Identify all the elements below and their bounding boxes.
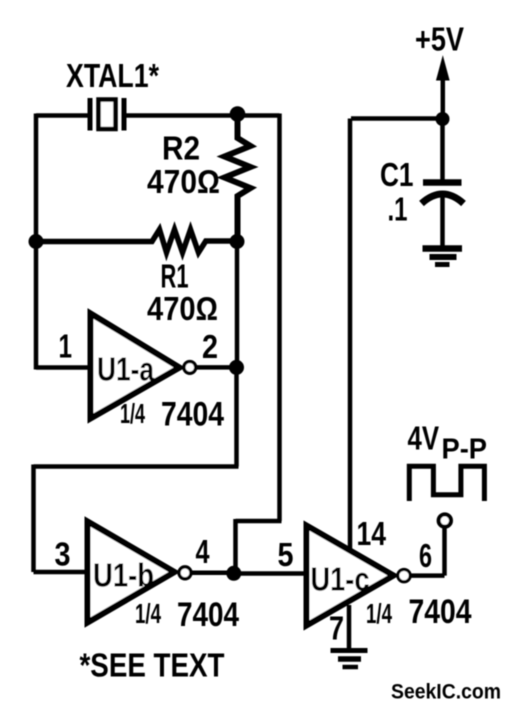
svg-text:5: 5 <box>278 536 294 573</box>
wire left vertical <box>34 114 39 370</box>
square wave symbol <box>409 466 484 501</box>
svg-text:470Ω: 470Ω <box>147 163 220 200</box>
wire jog vertical down to node <box>233 519 238 574</box>
svg-text:*SEE TEXT: *SEE TEXT <box>80 647 225 684</box>
capacitor C1 <box>422 119 464 248</box>
resistor R2 <box>225 114 251 242</box>
wire U1-c output <box>411 573 445 578</box>
svg-text:1/4: 1/4 <box>135 598 161 629</box>
inverter U1-b <box>88 522 192 623</box>
svg-text:SeekIC.com: SeekIC.com <box>391 681 501 704</box>
wire pin 7 vertical <box>347 605 352 649</box>
ground C1 <box>423 249 463 265</box>
wire pin2 vertical down <box>234 368 239 467</box>
inverter U1-a <box>91 314 196 419</box>
wire lower left vertical <box>31 465 36 573</box>
node junction left R1 <box>29 234 44 249</box>
svg-text:7: 7 <box>329 610 344 647</box>
wire node to pin 5 <box>234 571 308 576</box>
svg-text:P-P: P-P <box>442 434 488 466</box>
svg-text:1/4: 1/4 <box>366 598 392 629</box>
wire horizontal to left <box>34 464 239 469</box>
+5V supply arrow <box>437 57 449 119</box>
svg-text:+5V: +5V <box>415 21 464 58</box>
svg-text:470Ω: 470Ω <box>147 290 218 327</box>
wire +5V horizontal <box>351 116 443 121</box>
node junction pin 2 <box>229 360 244 375</box>
wire crystal right lead <box>124 113 238 118</box>
crystal XTAL1 <box>90 98 124 131</box>
svg-text:.1: .1 <box>388 191 408 228</box>
svg-text:7404: 7404 <box>161 396 224 434</box>
output terminal circle <box>439 514 451 526</box>
svg-text:4: 4 <box>196 533 210 570</box>
svg-text:XTAL1*: XTAL1* <box>66 57 159 94</box>
ground pin 7 <box>331 651 368 668</box>
svg-text:R1: R1 <box>161 258 189 295</box>
svg-text:14: 14 <box>357 515 387 552</box>
svg-text:U1-b: U1-b <box>93 557 154 594</box>
wire top junction to right corner <box>238 113 280 118</box>
node junction +5V <box>436 112 450 126</box>
svg-text:6: 6 <box>419 537 432 574</box>
svg-text:2: 2 <box>202 328 218 365</box>
svg-text:1: 1 <box>59 328 73 365</box>
svg-text:7404: 7404 <box>177 596 239 634</box>
svg-text:7404: 7404 <box>409 593 472 631</box>
wire U1-a output <box>196 365 237 370</box>
node junction pin 4 <box>226 566 241 581</box>
node junction top <box>230 106 246 122</box>
wire top-left horizontal to crystal <box>36 113 90 118</box>
wire output vertical to terminal <box>442 528 447 576</box>
svg-text:C1: C1 <box>380 156 414 193</box>
svg-text:1/4: 1/4 <box>120 398 145 429</box>
svg-text:U1-a: U1-a <box>97 351 155 388</box>
svg-text:U1-c: U1-c <box>311 561 370 598</box>
svg-text:4V: 4V <box>408 420 440 457</box>
node junction right R1 <box>230 234 245 249</box>
wire vertical R1 junction to pin2 junction <box>235 242 240 368</box>
wire U1-b output <box>192 571 234 576</box>
wire U1-b input <box>34 570 88 575</box>
wire jog horizontal <box>236 519 282 524</box>
wire pin 14 vertical <box>348 119 353 551</box>
inverter U1-c <box>307 526 411 626</box>
svg-text:3: 3 <box>55 536 71 573</box>
wire U1-a input <box>36 365 90 370</box>
wire long right vertical <box>277 114 282 522</box>
resistor R1 <box>36 230 237 253</box>
svg-text:R2: R2 <box>162 130 200 167</box>
